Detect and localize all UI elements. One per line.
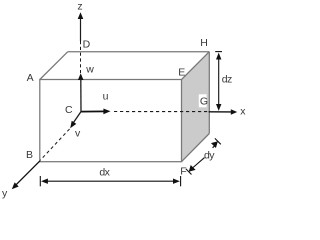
dx dimension line xyxy=(45,180,176,182)
w vector arrowhead xyxy=(78,73,84,80)
svg-text:u: u xyxy=(103,90,109,102)
svg-text:F: F xyxy=(180,165,186,177)
svg-text:H: H xyxy=(200,37,208,49)
svg-text:dz: dz xyxy=(222,73,232,85)
u vector arrowhead xyxy=(103,109,110,115)
y-axis arrowhead xyxy=(12,182,19,189)
svg-text:y: y xyxy=(2,188,8,200)
w vector shaft xyxy=(80,79,82,112)
svg-text:x: x xyxy=(240,106,246,118)
right face (shaded) xyxy=(182,52,210,162)
svg-text:E: E xyxy=(178,66,185,78)
z-axis dashed segment xyxy=(80,41,82,73)
svg-text:w: w xyxy=(85,63,94,75)
dy arrowhead upper xyxy=(211,141,218,148)
dx dimension left tick xyxy=(39,176,41,186)
svg-text:dx: dx xyxy=(99,167,110,179)
edge F-back-bottom-right (bottom-right depth) xyxy=(182,134,210,162)
dz arrowhead up xyxy=(216,53,221,60)
svg-text:A: A xyxy=(27,72,34,84)
x-axis arrowhead xyxy=(231,109,237,115)
dy dimension line upper segment xyxy=(213,146,215,148)
dy dimension lower tick xyxy=(186,169,192,175)
dz dimension top tick xyxy=(215,51,222,53)
front face outline xyxy=(40,80,182,162)
svg-text:D: D xyxy=(83,39,91,51)
dx dimension right tick xyxy=(180,176,182,186)
edge H-back-bottom-right xyxy=(208,52,210,134)
v vector shaft xyxy=(73,112,81,124)
dx arrowhead right xyxy=(173,179,180,184)
edge D-H (back top) xyxy=(68,51,210,53)
edge A-D (top-left depth) xyxy=(40,52,68,80)
dz arrowhead down xyxy=(216,104,221,111)
label G background xyxy=(199,94,207,107)
edge E-H (top-right depth) xyxy=(182,52,210,80)
y-axis dashed segment xyxy=(40,129,69,160)
u vector shaft xyxy=(81,110,105,112)
svg-text:v: v xyxy=(75,128,81,140)
dy arrowhead lower xyxy=(189,165,196,172)
y-axis solid segment xyxy=(16,161,41,186)
x-axis dashed segment xyxy=(114,111,209,113)
svg-text:G: G xyxy=(200,96,208,108)
dy dimension upper tick xyxy=(215,138,221,144)
dz dimension line xyxy=(218,57,220,107)
dy dimension line lower segment xyxy=(193,158,205,168)
v vector arrowhead xyxy=(70,121,76,129)
z-axis solid upper segment xyxy=(80,15,82,41)
z-axis arrowhead xyxy=(78,12,84,19)
svg-text:z: z xyxy=(77,1,82,13)
dx arrowhead left xyxy=(41,179,48,184)
svg-text:B: B xyxy=(26,149,33,161)
svg-text:C: C xyxy=(65,104,73,116)
x-axis solid segment xyxy=(209,111,232,113)
svg-text:dy: dy xyxy=(204,150,215,162)
